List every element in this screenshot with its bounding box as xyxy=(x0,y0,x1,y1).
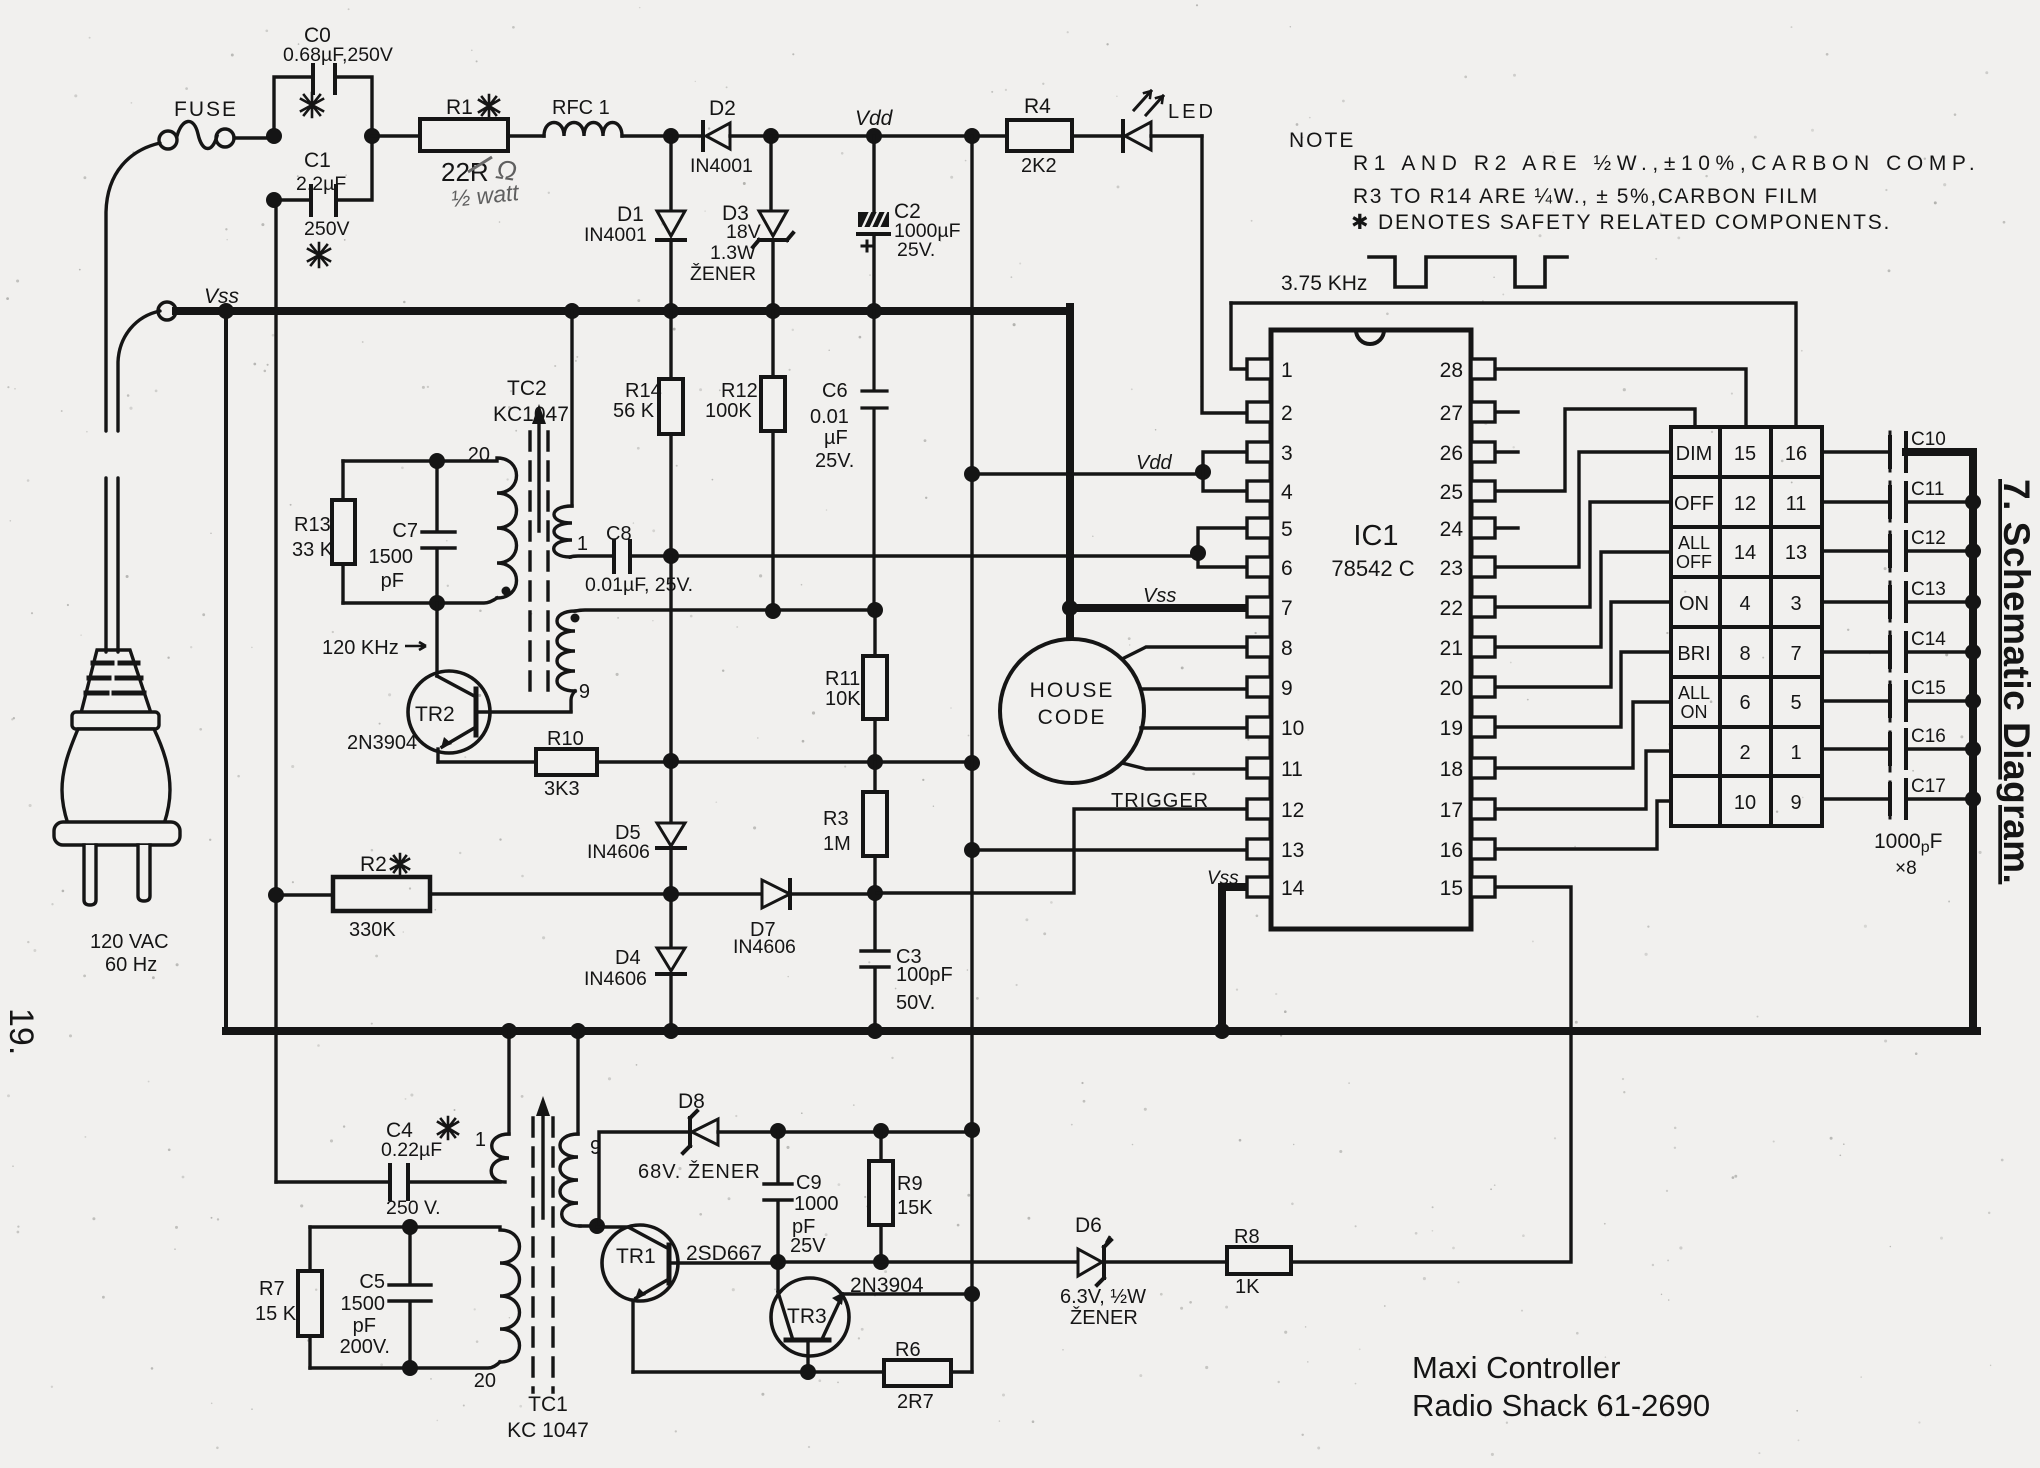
svg-text:1: 1 xyxy=(1790,742,1801,764)
svg-text:18V: 18V xyxy=(726,221,761,243)
svg-text:R14: R14 xyxy=(625,380,662,402)
svg-text:1: 1 xyxy=(577,533,588,555)
svg-text:DIM: DIM xyxy=(1676,443,1713,465)
svg-text:ON: ON xyxy=(1681,702,1708,722)
svg-text:2.2µF: 2.2µF xyxy=(296,173,346,195)
capacitor C11 xyxy=(1822,483,1969,521)
keypad matrix table xyxy=(1671,427,1822,826)
svg-text:C17: C17 xyxy=(1911,776,1946,797)
pin 13 box xyxy=(1247,839,1271,859)
pin 7 box xyxy=(1247,597,1271,617)
svg-text:ALL: ALL xyxy=(1678,683,1710,703)
node D2/D3 xyxy=(763,128,779,144)
node bus C16 xyxy=(1965,741,1981,757)
wire Vss thick top rail xyxy=(176,307,1070,315)
node RFC/D1 xyxy=(663,128,679,144)
pin 11 box xyxy=(1247,758,1271,778)
wire house code to pin 11 xyxy=(1122,763,1247,769)
svg-text:TRIGGER: TRIGGER xyxy=(1111,790,1209,812)
svg-text:33 K: 33 K xyxy=(292,539,334,561)
svg-text:R12: R12 xyxy=(721,380,758,402)
node C7 bottom xyxy=(429,595,445,611)
svg-text:23: 23 xyxy=(1440,557,1463,580)
wire Vss thick branch to pin 7 xyxy=(1070,604,1247,612)
wire Vss bottom rail thick xyxy=(226,1027,1977,1035)
wire pin 26 stub xyxy=(1495,450,1518,453)
svg-text:R6: R6 xyxy=(895,1339,921,1361)
node TR3 emitter at Vdd rail xyxy=(964,1286,980,1302)
svg-text:0.68µF,250V: 0.68µF,250V xyxy=(283,44,393,66)
wire TR1 emitter bottom line xyxy=(633,1370,884,1373)
svg-text:D1: D1 xyxy=(617,203,644,226)
svg-text:19: 19 xyxy=(1440,717,1463,740)
svg-text:D8: D8 xyxy=(678,1090,705,1113)
svg-text:ŽENER: ŽENER xyxy=(690,262,756,285)
wire node to R1 xyxy=(372,134,420,137)
transformer TC2 core xyxy=(530,404,548,700)
svg-text:1000: 1000 xyxy=(794,1193,839,1215)
svg-text:KC 1047: KC 1047 xyxy=(507,1419,589,1442)
svg-text:C15: C15 xyxy=(1911,678,1946,699)
svg-text:C7: C7 xyxy=(392,520,418,542)
svg-text:Vss: Vss xyxy=(1207,868,1239,889)
svg-text:C1: C1 xyxy=(304,149,331,172)
svg-text:C16: C16 xyxy=(1911,726,1946,747)
pin 15 box xyxy=(1471,877,1495,897)
mains plug xyxy=(54,650,180,905)
node D8 line at Vdd rail xyxy=(964,1122,980,1138)
waveform 3.75 KHz xyxy=(1369,257,1567,287)
svg-text:Vdd: Vdd xyxy=(1136,452,1172,474)
capacitor C1 xyxy=(274,136,372,215)
svg-text:20: 20 xyxy=(468,444,490,466)
node C9 top xyxy=(770,1123,786,1139)
svg-text:OFF: OFF xyxy=(1674,493,1714,515)
svg-text:TR2: TR2 xyxy=(415,703,455,726)
resistor R12 xyxy=(761,311,785,611)
svg-text:0.01µF, 25V.: 0.01µF, 25V. xyxy=(585,574,693,596)
node R9 bottom xyxy=(873,1254,889,1270)
svg-text:TC1: TC1 xyxy=(528,1393,568,1416)
pin 1 box xyxy=(1247,359,1271,379)
resistor R9 xyxy=(869,1131,893,1262)
svg-text:3: 3 xyxy=(1790,593,1801,615)
svg-text:250 V.: 250 V. xyxy=(386,1197,441,1219)
transformer TC1 secondary winding pin 9 xyxy=(560,1031,597,1226)
svg-text:24: 24 xyxy=(1440,518,1464,541)
node rail D4 xyxy=(663,1023,679,1039)
svg-text:2SD667: 2SD667 xyxy=(686,1242,762,1265)
svg-text:20: 20 xyxy=(1440,677,1463,700)
svg-text:FUSE: FUSE xyxy=(174,98,238,121)
capacitor C3 xyxy=(861,893,889,1031)
svg-text:12: 12 xyxy=(1734,493,1756,515)
svg-text:1000pF: 1000pF xyxy=(1874,830,1942,856)
svg-text:pF: pF xyxy=(353,1315,376,1337)
pin 28 box xyxy=(1471,359,1495,379)
svg-text:Radio Shack 61-2690: Radio Shack 61-2690 xyxy=(1412,1388,1710,1423)
node R11 bottom / R3 top xyxy=(867,754,883,770)
pin 14 box xyxy=(1247,877,1271,897)
resistor R7 xyxy=(298,1227,322,1368)
asterisk C0 xyxy=(301,93,323,117)
svg-text:25V.: 25V. xyxy=(897,239,935,261)
svg-text:TR3: TR3 xyxy=(787,1305,827,1328)
wire trigger pin 12 xyxy=(877,809,1247,893)
resistor R8 xyxy=(1227,1247,1291,1274)
svg-text:R2: R2 xyxy=(360,853,387,876)
svg-text:C9: C9 xyxy=(796,1172,822,1194)
svg-text:14: 14 xyxy=(1281,877,1305,900)
node bus C12 xyxy=(1965,543,1981,559)
pin 5 box xyxy=(1247,518,1271,538)
wire left Vss riser to bottom rail xyxy=(224,311,228,1031)
capacitor C13 xyxy=(1822,583,1969,621)
resistor R6 xyxy=(884,1360,972,1386)
wire pin 22 to OFF row xyxy=(1495,502,1671,607)
resistor R14 xyxy=(659,311,683,556)
wire pin 14 Vss thick xyxy=(1222,887,1247,1031)
svg-text:22: 22 xyxy=(1440,597,1463,620)
node Vss D3/R12 xyxy=(765,303,781,319)
svg-text:R9: R9 xyxy=(897,1173,923,1195)
svg-text:11: 11 xyxy=(1281,758,1303,781)
svg-text:ALL: ALL xyxy=(1678,533,1710,553)
capacitor C16 xyxy=(1822,730,1969,768)
svg-text:KC1047: KC1047 xyxy=(493,403,569,426)
node Vdd rail branch xyxy=(964,466,980,482)
wire pin 21 to ALL OFF row xyxy=(1495,552,1671,647)
resistor R1 xyxy=(420,119,508,151)
resistor R4 xyxy=(1007,120,1072,151)
svg-text:TC2: TC2 xyxy=(507,377,547,400)
node Vss D1/R14 xyxy=(663,303,679,319)
diode D2 xyxy=(703,122,771,150)
node C0 left xyxy=(266,128,282,144)
svg-text:IN4001: IN4001 xyxy=(584,224,647,246)
asterisk R1 xyxy=(479,95,499,117)
node emitter line at Vdd rail xyxy=(964,755,980,771)
arrow 120KHz xyxy=(405,642,426,650)
resistor R3 xyxy=(863,762,887,893)
svg-text:ŽENER: ŽENER xyxy=(1070,1306,1138,1329)
node Vss TC2 winding xyxy=(564,303,580,319)
node Vss pin7 branch xyxy=(1062,600,1078,616)
svg-text:2: 2 xyxy=(1281,402,1293,425)
transformer TC1 core xyxy=(533,1096,553,1392)
wire base line to D6 xyxy=(778,1260,1078,1263)
svg-text:9: 9 xyxy=(579,681,590,703)
pin 26 box xyxy=(1471,442,1495,462)
wire 3.75KHz rail xyxy=(1231,303,1796,427)
transistor TR3 xyxy=(771,1262,972,1372)
node Vss terminal xyxy=(158,302,176,320)
svg-text:1.3W: 1.3W xyxy=(710,242,756,264)
pin 24 box xyxy=(1471,518,1495,538)
svg-text:C11: C11 xyxy=(1911,479,1944,500)
svg-text:60 Hz: 60 Hz xyxy=(105,954,157,976)
svg-text:C14: C14 xyxy=(1911,629,1946,650)
svg-text:25V: 25V xyxy=(790,1235,826,1257)
capacitor C15 xyxy=(1822,682,1969,720)
pin 23 box xyxy=(1471,557,1495,577)
svg-text:50V.: 50V. xyxy=(896,992,935,1014)
capacitor C10 xyxy=(1822,433,1969,471)
svg-text:3: 3 xyxy=(1281,442,1293,465)
transistor TR2 xyxy=(408,603,571,762)
svg-text:CODE: CODE xyxy=(1038,706,1107,729)
capacitor C0 xyxy=(274,65,372,136)
svg-text:16: 16 xyxy=(1785,443,1807,465)
capacitor C12 xyxy=(1822,532,1969,570)
svg-text:20: 20 xyxy=(474,1370,496,1392)
pin 3 box xyxy=(1247,442,1271,462)
svg-text:✱ DENOTES SAFETY RELATED COMPO: ✱ DENOTES SAFETY RELATED COMPONENTS. xyxy=(1351,211,1891,234)
svg-text:BRI: BRI xyxy=(1677,643,1710,665)
svg-text:1: 1 xyxy=(1281,359,1293,382)
wire RFC1 to D2 xyxy=(622,134,703,137)
svg-text:15: 15 xyxy=(1734,443,1756,465)
pin 2 box xyxy=(1247,402,1271,422)
wire pin 16 to row 10-9 xyxy=(1495,801,1671,849)
node C1 left xyxy=(266,192,282,208)
svg-text:1K: 1K xyxy=(1235,1276,1260,1298)
svg-text:4: 4 xyxy=(1739,593,1750,615)
resistor R13 xyxy=(332,461,355,603)
capacitor C9 xyxy=(764,1131,792,1262)
node bus C17 xyxy=(1965,791,1981,807)
diode D4 xyxy=(657,894,685,1031)
svg-text:RFC 1: RFC 1 xyxy=(552,97,610,119)
capacitor C5 xyxy=(389,1227,431,1368)
svg-text:120 KHz: 120 KHz xyxy=(322,637,399,659)
svg-text:C6: C6 xyxy=(822,380,848,402)
transistor TR1 xyxy=(597,1225,778,1372)
diode D1 xyxy=(657,136,685,310)
capacitor C14 xyxy=(1822,633,1969,671)
svg-text:15 K: 15 K xyxy=(255,1303,297,1325)
wire R14 node down to R10 node xyxy=(669,556,672,761)
keypad dashed gang line xyxy=(1889,432,1892,818)
svg-text:1500: 1500 xyxy=(369,546,414,568)
transformer TC2 feedback winding pin 1 xyxy=(554,311,614,557)
svg-text:C12: C12 xyxy=(1911,528,1946,549)
wire mains cord upper pair xyxy=(106,143,160,431)
node Vdd at pins 3,4 xyxy=(1195,464,1211,480)
node TR1 base / C9 bottom xyxy=(770,1254,786,1270)
svg-text:HOUSE: HOUSE xyxy=(1030,679,1115,702)
node bus C11 xyxy=(1965,494,1981,510)
node rail C3 xyxy=(867,1023,883,1039)
node C8/R14 xyxy=(663,548,679,564)
wire pin 24 stub xyxy=(1495,526,1518,529)
pin 25 box xyxy=(1471,481,1495,501)
pin 17 box xyxy=(1471,799,1495,819)
svg-text:R10: R10 xyxy=(547,728,584,750)
svg-text:NOTE: NOTE xyxy=(1289,129,1355,152)
wire Vdd rail vertical xyxy=(970,136,973,1372)
wire house code to pin 10 xyxy=(1141,726,1247,729)
resistor R10 xyxy=(438,749,671,775)
inductor RFC1 xyxy=(544,123,622,137)
pin 27 box xyxy=(1471,402,1495,422)
node Vdd rail top xyxy=(964,128,980,144)
svg-text:2K2: 2K2 xyxy=(1021,155,1057,177)
svg-text:C8: C8 xyxy=(606,523,632,545)
svg-text:IN4606: IN4606 xyxy=(587,841,650,863)
svg-text:21: 21 xyxy=(1440,637,1463,660)
svg-text:13: 13 xyxy=(1785,542,1807,564)
leader D8 xyxy=(690,1113,694,1120)
pin 10 box xyxy=(1247,717,1271,737)
svg-text:2N3904: 2N3904 xyxy=(850,1274,924,1297)
svg-text:330K: 330K xyxy=(349,919,396,941)
svg-text:7. Schematic Diagram.: 7. Schematic Diagram. xyxy=(1996,479,2037,884)
wire pin 23 to DIM row xyxy=(1495,452,1671,567)
svg-text:IN4001: IN4001 xyxy=(690,155,753,177)
node C7 top xyxy=(429,453,445,469)
node TC1 sec / TR1 collector xyxy=(589,1218,605,1234)
svg-text:14: 14 xyxy=(1734,542,1756,564)
wire pin 18 to ALL ON row xyxy=(1495,702,1671,768)
transformer TC2 primary winding pins 20 xyxy=(343,458,517,603)
resistor R11 xyxy=(863,610,887,762)
pin 22 box xyxy=(1471,597,1495,617)
wire LED to pin2 xyxy=(1202,136,1247,413)
node rail TC1 pin1 xyxy=(501,1023,517,1039)
svg-text:D2: D2 xyxy=(709,97,736,120)
node bus C13 xyxy=(1965,594,1981,610)
pin 4 box xyxy=(1247,481,1271,501)
svg-text:R3 TO R14 ARE ¼W., ± 5%,CARBON: R3 TO R14 ARE ¼W., ± 5%,CARBON FILM xyxy=(1353,185,1819,208)
svg-text:R11: R11 xyxy=(825,668,860,690)
node C5 top xyxy=(402,1219,418,1235)
svg-text:5: 5 xyxy=(1281,518,1293,541)
svg-text:16: 16 xyxy=(1440,839,1463,862)
LED indicator xyxy=(1072,91,1202,151)
node bus C15 xyxy=(1965,693,1981,709)
wire emitter line to Vdd rail xyxy=(671,760,972,763)
transformer TC1 primary winding pin 1 xyxy=(491,1031,509,1182)
svg-text:10: 10 xyxy=(1281,717,1304,740)
diode D3 zener xyxy=(753,136,793,310)
svg-text:7: 7 xyxy=(1281,597,1293,620)
svg-text:R4: R4 xyxy=(1024,95,1051,118)
capacitor C7 xyxy=(422,461,455,603)
wire pin 15 to R8 xyxy=(1291,887,1571,1262)
wire mains cord lower pair xyxy=(104,478,107,652)
svg-text:µF: µF xyxy=(824,427,848,449)
house code switch circle xyxy=(1000,639,1144,783)
node Vss C2/C6 xyxy=(866,303,882,319)
IC1 body xyxy=(1271,330,1471,929)
svg-text:19.: 19. xyxy=(2,1008,40,1055)
wire pin 1 riser to clock rail xyxy=(1231,303,1247,369)
svg-text:R1: R1 xyxy=(446,96,473,119)
svg-text:R13: R13 xyxy=(294,514,331,536)
svg-text:0.01: 0.01 xyxy=(810,406,849,428)
svg-text:Maxi Controller: Maxi Controller xyxy=(1412,1350,1620,1385)
pin 12 box xyxy=(1247,799,1271,819)
capacitor C6 xyxy=(862,311,887,610)
svg-text:12: 12 xyxy=(1281,799,1304,822)
wire pin 27 stub xyxy=(1495,410,1518,413)
diode D6 zener xyxy=(1078,1240,1227,1285)
wire pin 13 to Vdd rail xyxy=(972,848,1247,851)
svg-text:27: 27 xyxy=(1440,402,1463,425)
svg-text:250V: 250V xyxy=(304,218,350,240)
svg-text:OFF: OFF xyxy=(1676,552,1712,572)
svg-text:pF: pF xyxy=(381,570,404,592)
capacitor C17 xyxy=(1822,780,1969,818)
pin 8 box xyxy=(1247,637,1271,657)
svg-text:68V. ŽENER: 68V. ŽENER xyxy=(638,1160,761,1183)
pin 19 box xyxy=(1471,717,1495,737)
svg-text:1500: 1500 xyxy=(341,1293,386,1315)
wire pin 20 to ON row xyxy=(1495,602,1671,687)
svg-text:5: 5 xyxy=(1790,692,1801,714)
asterisk C1 xyxy=(308,243,330,267)
svg-text:2R7: 2R7 xyxy=(897,1391,934,1413)
svg-text:Vss: Vss xyxy=(204,285,240,308)
svg-text:1M: 1M xyxy=(823,833,851,855)
svg-text:2N3904: 2N3904 xyxy=(347,732,417,754)
pin 18 box xyxy=(1471,758,1495,778)
svg-text:4: 4 xyxy=(1281,481,1293,504)
node R12 bottom xyxy=(765,603,781,619)
svg-text:8: 8 xyxy=(1739,643,1750,665)
svg-text:IC1: IC1 xyxy=(1353,520,1398,552)
asterisk R2 xyxy=(391,854,409,874)
node R3 bottom / trigger xyxy=(867,885,883,901)
svg-text:10K: 10K xyxy=(825,688,861,710)
wire Vss thick vertical to house code xyxy=(1066,307,1074,637)
svg-text:15K: 15K xyxy=(897,1197,933,1219)
svg-text:200V.: 200V. xyxy=(340,1336,390,1358)
wire C8 to IC pins 5,6 xyxy=(630,554,1198,557)
wire pin 28 to keypad column xyxy=(1495,369,1746,427)
svg-text:28: 28 xyxy=(1440,359,1463,382)
svg-text:56 K: 56 K xyxy=(613,400,655,422)
svg-text:C10: C10 xyxy=(1911,429,1946,450)
leader D6 xyxy=(1106,1236,1110,1243)
svg-text:R7: R7 xyxy=(259,1278,285,1300)
svg-text:×8: ×8 xyxy=(1895,858,1917,879)
node Vss left riser xyxy=(218,303,234,319)
svg-text:3.75 KHz: 3.75 KHz xyxy=(1281,272,1367,295)
capacitor C4 xyxy=(276,1165,500,1199)
svg-text:9: 9 xyxy=(590,1137,601,1159)
svg-text:13: 13 xyxy=(1281,839,1304,862)
svg-text:2: 2 xyxy=(1739,742,1750,764)
svg-text:9: 9 xyxy=(1281,677,1293,700)
node C0 right xyxy=(364,128,380,144)
node Vdd/C2 xyxy=(866,128,882,144)
wire riser to D8 line xyxy=(599,1132,688,1226)
svg-text:D6: D6 xyxy=(1075,1214,1102,1237)
svg-text:D4: D4 xyxy=(615,947,641,969)
svg-text:IN4606: IN4606 xyxy=(733,936,796,958)
wire pin3 pin4 riser xyxy=(1203,452,1247,491)
asterisk C4 xyxy=(438,1117,458,1139)
wire R1 to RFC1 xyxy=(508,134,544,137)
node C5 bottom xyxy=(402,1360,418,1376)
node TR3 base bottom xyxy=(800,1364,816,1380)
svg-text:8: 8 xyxy=(1281,637,1293,660)
wire pin 17 to row 2-1 xyxy=(1495,751,1671,809)
svg-text:R3: R3 xyxy=(823,808,849,830)
node rail TC1 pin9 xyxy=(570,1023,586,1039)
